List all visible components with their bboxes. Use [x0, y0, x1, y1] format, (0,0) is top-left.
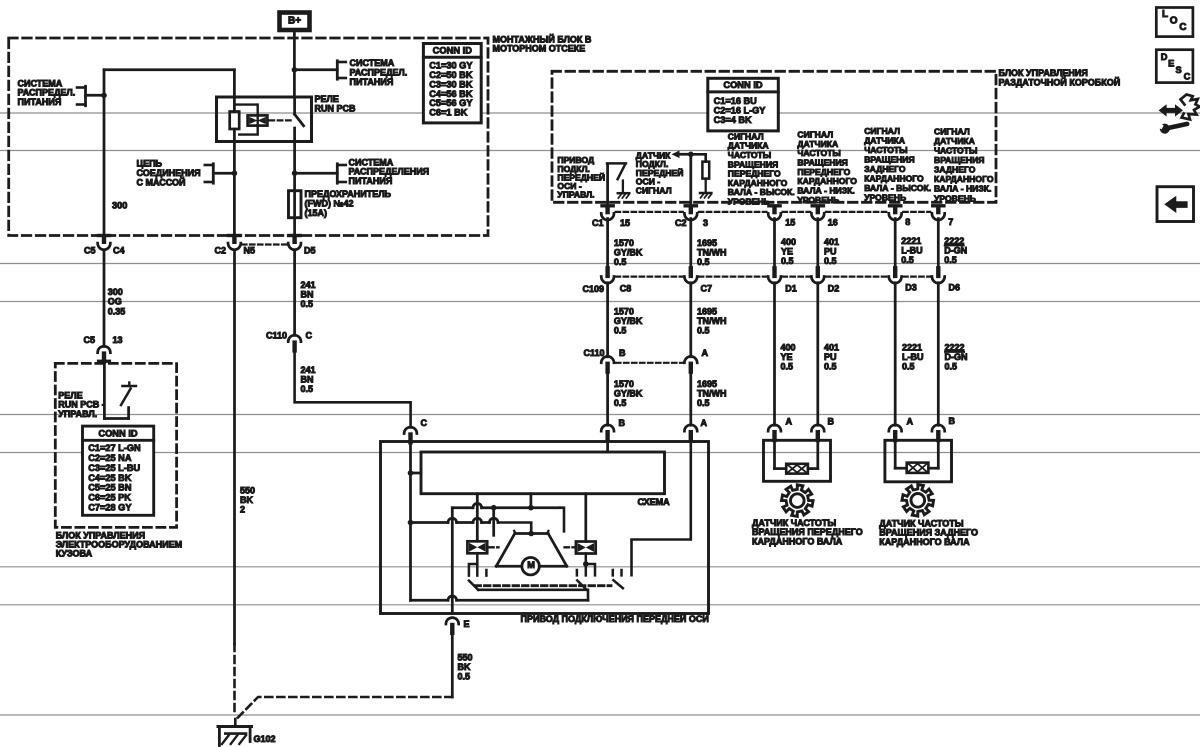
svg-text:D2: D2 [828, 283, 840, 293]
wire: 550 BK 2 [233, 250, 236, 644]
motor M [522, 558, 539, 575]
wire bracket to left bus [86, 94, 105, 97]
svg-text:2221: 2221 [902, 343, 922, 353]
svg-text:B+: B+ [288, 15, 301, 26]
wire: h2 bus (SKHEMA feeds) [452, 506, 473, 509]
svg-text:ДАТЧИКА: ДАТЧИКА [864, 135, 905, 145]
svg-text:3: 3 [703, 218, 708, 228]
TCCM switch (front axle actuator control) [606, 164, 609, 204]
wire: dashed ground run to G102 [236, 697, 452, 720]
wire stub to bracket [295, 172, 338, 175]
svg-text:ПРЕДОХРАНИТЕЛЬ: ПРЕДОХРАНИТЕЛЬ [305, 189, 392, 199]
svg-text:1695: 1695 [697, 238, 717, 248]
svg-text:C2: C2 [214, 245, 226, 255]
svg-text:C: C [306, 331, 313, 341]
connector row3 B,A / A,B / A,B [601, 425, 614, 431]
rear sensor coil [907, 463, 929, 473]
svg-text:C7=28 GY: C7=28 GY [88, 502, 131, 512]
svg-text:C4=25 BK: C4=25 BK [88, 473, 132, 483]
svg-text:C4: C4 [113, 245, 125, 255]
svg-text:GY/BK: GY/BK [614, 316, 643, 326]
svg-text:TN/WH: TN/WH [697, 316, 727, 326]
svg-text:C109: C109 [582, 284, 604, 294]
svg-text:УПРАВЛ.: УПРАВЛ. [58, 409, 97, 419]
svg-text:C: C [1184, 72, 1191, 82]
svg-text:0.5: 0.5 [824, 256, 837, 266]
svg-text:(FWD) №42: (FWD) №42 [305, 199, 354, 209]
svg-text:L-BU: L-BU [902, 352, 924, 362]
svg-text:C8: C8 [620, 283, 632, 293]
connector C5/C4 [98, 234, 109, 237]
wire: 300 OG to BCM [103, 250, 106, 346]
svg-text:0.5: 0.5 [458, 672, 471, 682]
svg-text:1695: 1695 [697, 307, 717, 317]
connector C110 B/A [601, 356, 614, 362]
svg-text:BK: BK [458, 662, 471, 672]
svg-text:C5=25 BN: C5=25 BN [88, 483, 132, 493]
svg-text:C1=16 BU: C1=16 BU [714, 96, 758, 106]
svg-text:СХЕМА: СХЕМА [638, 497, 671, 507]
rear propshaft speed sensor box [885, 440, 952, 482]
svg-text:300: 300 [112, 201, 127, 211]
svg-text:BN: BN [301, 375, 314, 385]
svg-text:L-BU: L-BU [901, 246, 923, 256]
svg-text:ВРАЩЕНИЯ: ВРАЩЕНИЯ [934, 155, 984, 165]
junction [292, 67, 298, 73]
svg-text:ВАЛА - НИЗК.: ВАЛА - НИЗК. [934, 184, 991, 194]
svg-text:0.5: 0.5 [944, 255, 957, 265]
svg-text:550: 550 [458, 652, 473, 662]
svg-text:2: 2 [240, 505, 245, 515]
svg-text:241: 241 [301, 280, 316, 290]
junction [292, 170, 298, 176]
svg-text:PU: PU [824, 247, 837, 257]
svg-text:0.5: 0.5 [697, 326, 710, 336]
svg-text:0.5: 0.5 [301, 384, 314, 394]
icon: DESC button [1156, 50, 1193, 83]
svg-text:D-GN: D-GN [945, 352, 968, 362]
svg-text:0.5: 0.5 [614, 398, 627, 408]
svg-text:C2=25 NA: C2=25 NA [88, 453, 132, 463]
wire: coil bottom [233, 129, 236, 236]
wire: B input [606, 440, 609, 452]
svg-text:YE: YE [781, 247, 793, 257]
svg-text:1570: 1570 [614, 238, 634, 248]
ground G102 [234, 719, 237, 727]
svg-text:C5: C5 [84, 245, 96, 255]
svg-text:CONN ID: CONN ID [98, 428, 138, 438]
connector D5 [289, 234, 300, 237]
relay coil [230, 112, 240, 130]
svg-text:B: B [619, 348, 626, 358]
wire: relay coil feed drop [233, 70, 236, 112]
wire: 241 BN upper [293, 250, 296, 335]
wire: relay to fuse to D5 [293, 142, 296, 236]
connector E [446, 618, 459, 624]
svg-text:A: A [701, 418, 708, 428]
dashed link C110 [616, 362, 683, 364]
svg-text:0.5: 0.5 [901, 255, 914, 265]
svg-text:CONN ID: CONN ID [723, 80, 763, 90]
svg-text:400: 400 [781, 237, 796, 247]
front propshaft speed sensor box [764, 440, 831, 481]
bracket: sistema raspredel pitaniya (right) [336, 61, 339, 79]
wire: 241 BN lower, routes right to actuator C [295, 350, 411, 427]
bracket: sistema raspredeleniya pitaniya [336, 164, 339, 183]
svg-text:1570: 1570 [614, 379, 634, 389]
svg-text:0.5: 0.5 [697, 398, 710, 408]
CONN ID table (BCM) [83, 426, 154, 515]
svg-text:0.5: 0.5 [781, 362, 794, 372]
open pins near A wire [612, 570, 615, 575]
relay switch blade [295, 114, 304, 126]
bracket: sistema raspredel pitaniya (left) [84, 86, 87, 105]
svg-text:PU: PU [824, 352, 837, 362]
wire: motor riser [530, 494, 533, 508]
wire: B+ vertical [293, 30, 296, 97]
svg-text:C110: C110 [266, 331, 287, 341]
svg-text:C2: C2 [675, 218, 687, 228]
svg-text:УРОВЕНЬ: УРОВЕНЬ [797, 195, 839, 205]
icon: diagnostic wrench [1159, 104, 1183, 116]
relay actuator crossed box [248, 115, 268, 125]
relay switch moving terminal [293, 128, 296, 142]
svg-text:A: A [702, 348, 709, 358]
junction [232, 170, 238, 176]
svg-text:D: D [1161, 52, 1168, 62]
wire stub to SKHEMA left [411, 472, 422, 475]
rear sensor gear [902, 485, 934, 517]
SKHEMA circuit board box [421, 452, 665, 494]
relay actuator dashed link [270, 119, 293, 121]
connector row C1/C2 + pins 15,3,15,16,8,7 [602, 204, 613, 207]
BCM dashed box [55, 363, 176, 527]
svg-text:ЧАСТОТЫ: ЧАСТОТЫ [864, 145, 907, 155]
svg-text:ПРИВОД ПОДКЛЮЧЕНИЯ ПЕРЕДНЕЙ ОС: ПРИВОД ПОДКЛЮЧЕНИЯ ПЕРЕДНЕЙ ОСИ [521, 613, 709, 624]
svg-text:ЗАДНЕГО: ЗАДНЕГО [864, 164, 906, 174]
svg-text:0.5: 0.5 [945, 362, 958, 372]
svg-text:L: L [1162, 9, 1168, 20]
svg-text:8: 8 [905, 217, 910, 227]
svg-text:УПРАВЛ.: УПРАВЛ. [557, 190, 594, 200]
left solenoid linkage (dashed) [489, 546, 498, 548]
svg-text:ПИТАНИЯ: ПИТАНИЯ [18, 97, 62, 107]
svg-text:15: 15 [785, 218, 795, 228]
svg-text:E: E [1168, 59, 1174, 69]
right shift solenoid [584, 494, 587, 542]
front sensor gear [782, 485, 814, 517]
svg-text:BK: BK [240, 495, 253, 505]
wire: bottom return [411, 599, 449, 602]
svg-text:400: 400 [781, 343, 796, 353]
svg-text:0.5: 0.5 [902, 362, 915, 372]
wire: top horizontal (B+ bus to relay coil) [104, 68, 234, 71]
svg-text:(15А): (15А) [305, 208, 328, 218]
wire: B-stub [492, 508, 495, 536]
svg-text:401: 401 [824, 343, 839, 353]
dashed link row1 [616, 211, 683, 213]
wire stub to bracket (right) [294, 68, 337, 71]
relay RUN PCB box [217, 97, 312, 142]
svg-text:D6: D6 [949, 282, 961, 292]
CONN ID table (junction block) [423, 44, 481, 123]
svg-text:РАЗДАТОЧНОЙ КОРОБКОЙ: РАЗДАТОЧНОЙ КОРОБКОЙ [999, 76, 1121, 87]
svg-text:C: C [1179, 22, 1186, 33]
encoder trapezoid [515, 532, 548, 535]
svg-text:O: O [1170, 16, 1178, 27]
svg-text:2221: 2221 [901, 236, 921, 246]
svg-text:БЛОК УПРАВЛЕНИЯ: БЛОК УПРАВЛЕНИЯ [999, 68, 1088, 78]
svg-text:GY/BK: GY/BK [614, 247, 643, 257]
svg-text:ПИТАНИЯ: ПИТАНИЯ [349, 176, 393, 186]
svg-text:550: 550 [240, 486, 255, 496]
wire: 550 BK 2 dashed section [233, 644, 236, 714]
svg-text:S: S [1176, 65, 1182, 75]
BCM relay control switch [104, 417, 128, 420]
svg-text:0.5: 0.5 [301, 299, 314, 309]
svg-text:РЕЛЕ: РЕЛЕ [315, 94, 339, 104]
svg-text:CONN ID: CONN ID [433, 46, 473, 56]
junction block dashed box (engine compartment) [9, 38, 488, 236]
dashed link row2 [616, 276, 683, 278]
wire: into BCM switch [103, 363, 106, 419]
dashed link C2-N5 [242, 243, 287, 245]
svg-text:УРОВЕНЬ: УРОВЕНЬ [728, 197, 770, 207]
svg-text:0.5: 0.5 [697, 257, 710, 267]
svg-text:МОТОРНОМ ОТСЕКЕ: МОТОРНОМ ОТСЕКЕ [493, 44, 586, 54]
left shift solenoid [476, 494, 479, 542]
wires row2 to row3 (cols3-6) [773, 283, 776, 426]
svg-text:СИГНАЛ: СИГНАЛ [934, 126, 970, 136]
front sensor coil [786, 464, 808, 474]
svg-text:0.5: 0.5 [781, 256, 794, 266]
connector C (actuator) [404, 427, 417, 433]
fork middle slant [577, 580, 586, 589]
svg-text:C3=25 L-BU: C3=25 L-BU [88, 463, 140, 473]
svg-text:2222: 2222 [945, 343, 965, 353]
svg-text:300: 300 [108, 287, 123, 297]
svg-text:D-GN: D-GN [944, 246, 967, 256]
connector C2/N5 [229, 234, 240, 237]
svg-text:C1: C1 [592, 218, 604, 228]
wire stub bracket to coil wire [213, 172, 234, 175]
bracket: tsep soedineniya [212, 164, 215, 183]
wires row1 to row2 [606, 219, 609, 269]
svg-text:ЧАСТОТЫ: ЧАСТОТЫ [934, 146, 977, 156]
connector C110/C [288, 335, 301, 341]
svg-text:КУЗОВА: КУЗОВА [56, 548, 93, 558]
relay actuator branch [234, 105, 257, 135]
svg-text:0.5: 0.5 [614, 326, 627, 336]
svg-text:401: 401 [824, 237, 839, 247]
svg-text:УРОВЕНЬ: УРОВЕНЬ [864, 193, 906, 203]
svg-text:M: M [527, 560, 535, 570]
wire: A input, routes into actuator [632, 440, 691, 575]
wire: h3 (C branch) [414, 521, 448, 524]
svg-text:B: B [949, 416, 956, 426]
svg-text:МОНТАЖНЫЙ БЛОК В: МОНТАЖНЫЙ БЛОК В [493, 33, 592, 44]
svg-text:КАРДАННОГО: КАРДАННОГО [864, 174, 924, 184]
wire: E return vertical [451, 508, 454, 614]
svg-text:RUN PCB: RUN PCB [315, 104, 357, 114]
svg-text:C1=27 L-GN: C1=27 L-GN [88, 443, 141, 453]
svg-text:C7: C7 [701, 283, 713, 293]
svg-text:ПИТАНИЯ: ПИТАНИЯ [350, 77, 394, 87]
svg-text:ВАЛА - ВЫСОК.: ВАЛА - ВЫСОК. [864, 183, 931, 193]
svg-text:C: C [421, 418, 428, 428]
svg-text:BN: BN [301, 290, 314, 300]
svg-text:СИГНАЛ: СИГНАЛ [636, 185, 672, 195]
svg-text:КАРДАННОГО ВАЛА: КАРДАННОГО ВАЛА [879, 537, 970, 547]
svg-text:16: 16 [828, 218, 838, 228]
svg-text:0.5: 0.5 [824, 362, 837, 372]
svg-text:E: E [464, 619, 470, 629]
svg-text:A: A [907, 416, 914, 426]
right solenoid linkage (dashed) [565, 546, 575, 548]
svg-text:КАРДАННОГО: КАРДАННОГО [934, 174, 994, 184]
resistor (axle sensor pull-up) [702, 162, 709, 179]
svg-text:ВРАЩЕНИЯ: ВРАЩЕНИЯ [864, 154, 914, 164]
svg-text:B: B [828, 417, 835, 427]
TCCM sense resistor branch [689, 154, 692, 204]
svg-text:YE: YE [781, 352, 793, 362]
svg-text:TN/WH: TN/WH [697, 247, 727, 257]
svg-text:КАРДАННОГО ВАЛА: КАРДАННОГО ВАЛА [752, 536, 843, 546]
wire: left vertical bus (to C5/C4) [103, 70, 106, 236]
connector row C109: C8,C7,D1,D2,D3,D6 [605, 268, 609, 276]
svg-text:OG: OG [108, 297, 122, 307]
svg-text:ЗАДНЕГО: ЗАДНЕГО [934, 165, 976, 175]
svg-text:D1: D1 [785, 283, 797, 293]
node B+ battery feed [280, 13, 310, 31]
connector C5/13 [98, 346, 111, 352]
svg-text:D3: D3 [905, 282, 917, 292]
svg-text:B: B [619, 418, 626, 428]
svg-text:A: A [786, 417, 793, 427]
svg-text:13: 13 [113, 335, 123, 345]
svg-text:СИГНАЛ: СИГНАЛ [864, 126, 900, 136]
fuse FWD #42 15A [289, 191, 302, 218]
svg-text:C110: C110 [583, 348, 604, 358]
wires row2 to C110 (cols1,2) [606, 283, 609, 357]
svg-text:GY/BK: GY/BK [614, 389, 643, 399]
wires C110 to actuator [606, 371, 609, 425]
svg-text:2222: 2222 [944, 236, 964, 246]
wire: 550 BK 0.5 [451, 633, 454, 697]
svg-text:УРОВЕНЬ: УРОВЕНЬ [934, 193, 976, 203]
relay switch fixed contact [293, 97, 296, 114]
svg-text:TN/WH: TN/WH [697, 389, 727, 399]
svg-text:C5: C5 [83, 335, 95, 345]
svg-text:1570: 1570 [614, 307, 634, 317]
shift fork bracket [478, 590, 588, 601]
icon: back arrow button [1157, 187, 1194, 222]
svg-text:1695: 1695 [697, 379, 717, 389]
svg-text:G102: G102 [254, 734, 276, 744]
TCCM dashed box [552, 71, 996, 202]
svg-text:0.35: 0.35 [108, 306, 126, 316]
svg-text:C6=1 BK: C6=1 BK [429, 108, 467, 118]
svg-text:N5: N5 [244, 245, 256, 255]
svg-text:7: 7 [948, 217, 953, 227]
front axle actuator box [381, 442, 709, 614]
svg-text:C6=25 PK: C6=25 PK [88, 492, 131, 502]
junction [101, 93, 107, 99]
wire: C input vertical [409, 441, 412, 600]
shift fork dashed linkage [475, 584, 611, 587]
svg-text:D5: D5 [304, 245, 316, 255]
svg-text:15: 15 [620, 218, 630, 228]
svg-text:241: 241 [301, 365, 316, 375]
svg-text:0.5: 0.5 [614, 257, 627, 267]
svg-text:C3=4 BK: C3=4 BK [714, 115, 752, 125]
CONN ID table (TCCM) [708, 78, 779, 131]
svg-text:ДАТЧИКА: ДАТЧИКА [934, 136, 975, 146]
svg-text:С МАССОЙ: С МАССОЙ [137, 176, 186, 187]
svg-text:C2=16 L-GY: C2=16 L-GY [714, 105, 766, 115]
icon: LOC button [1156, 8, 1193, 37]
